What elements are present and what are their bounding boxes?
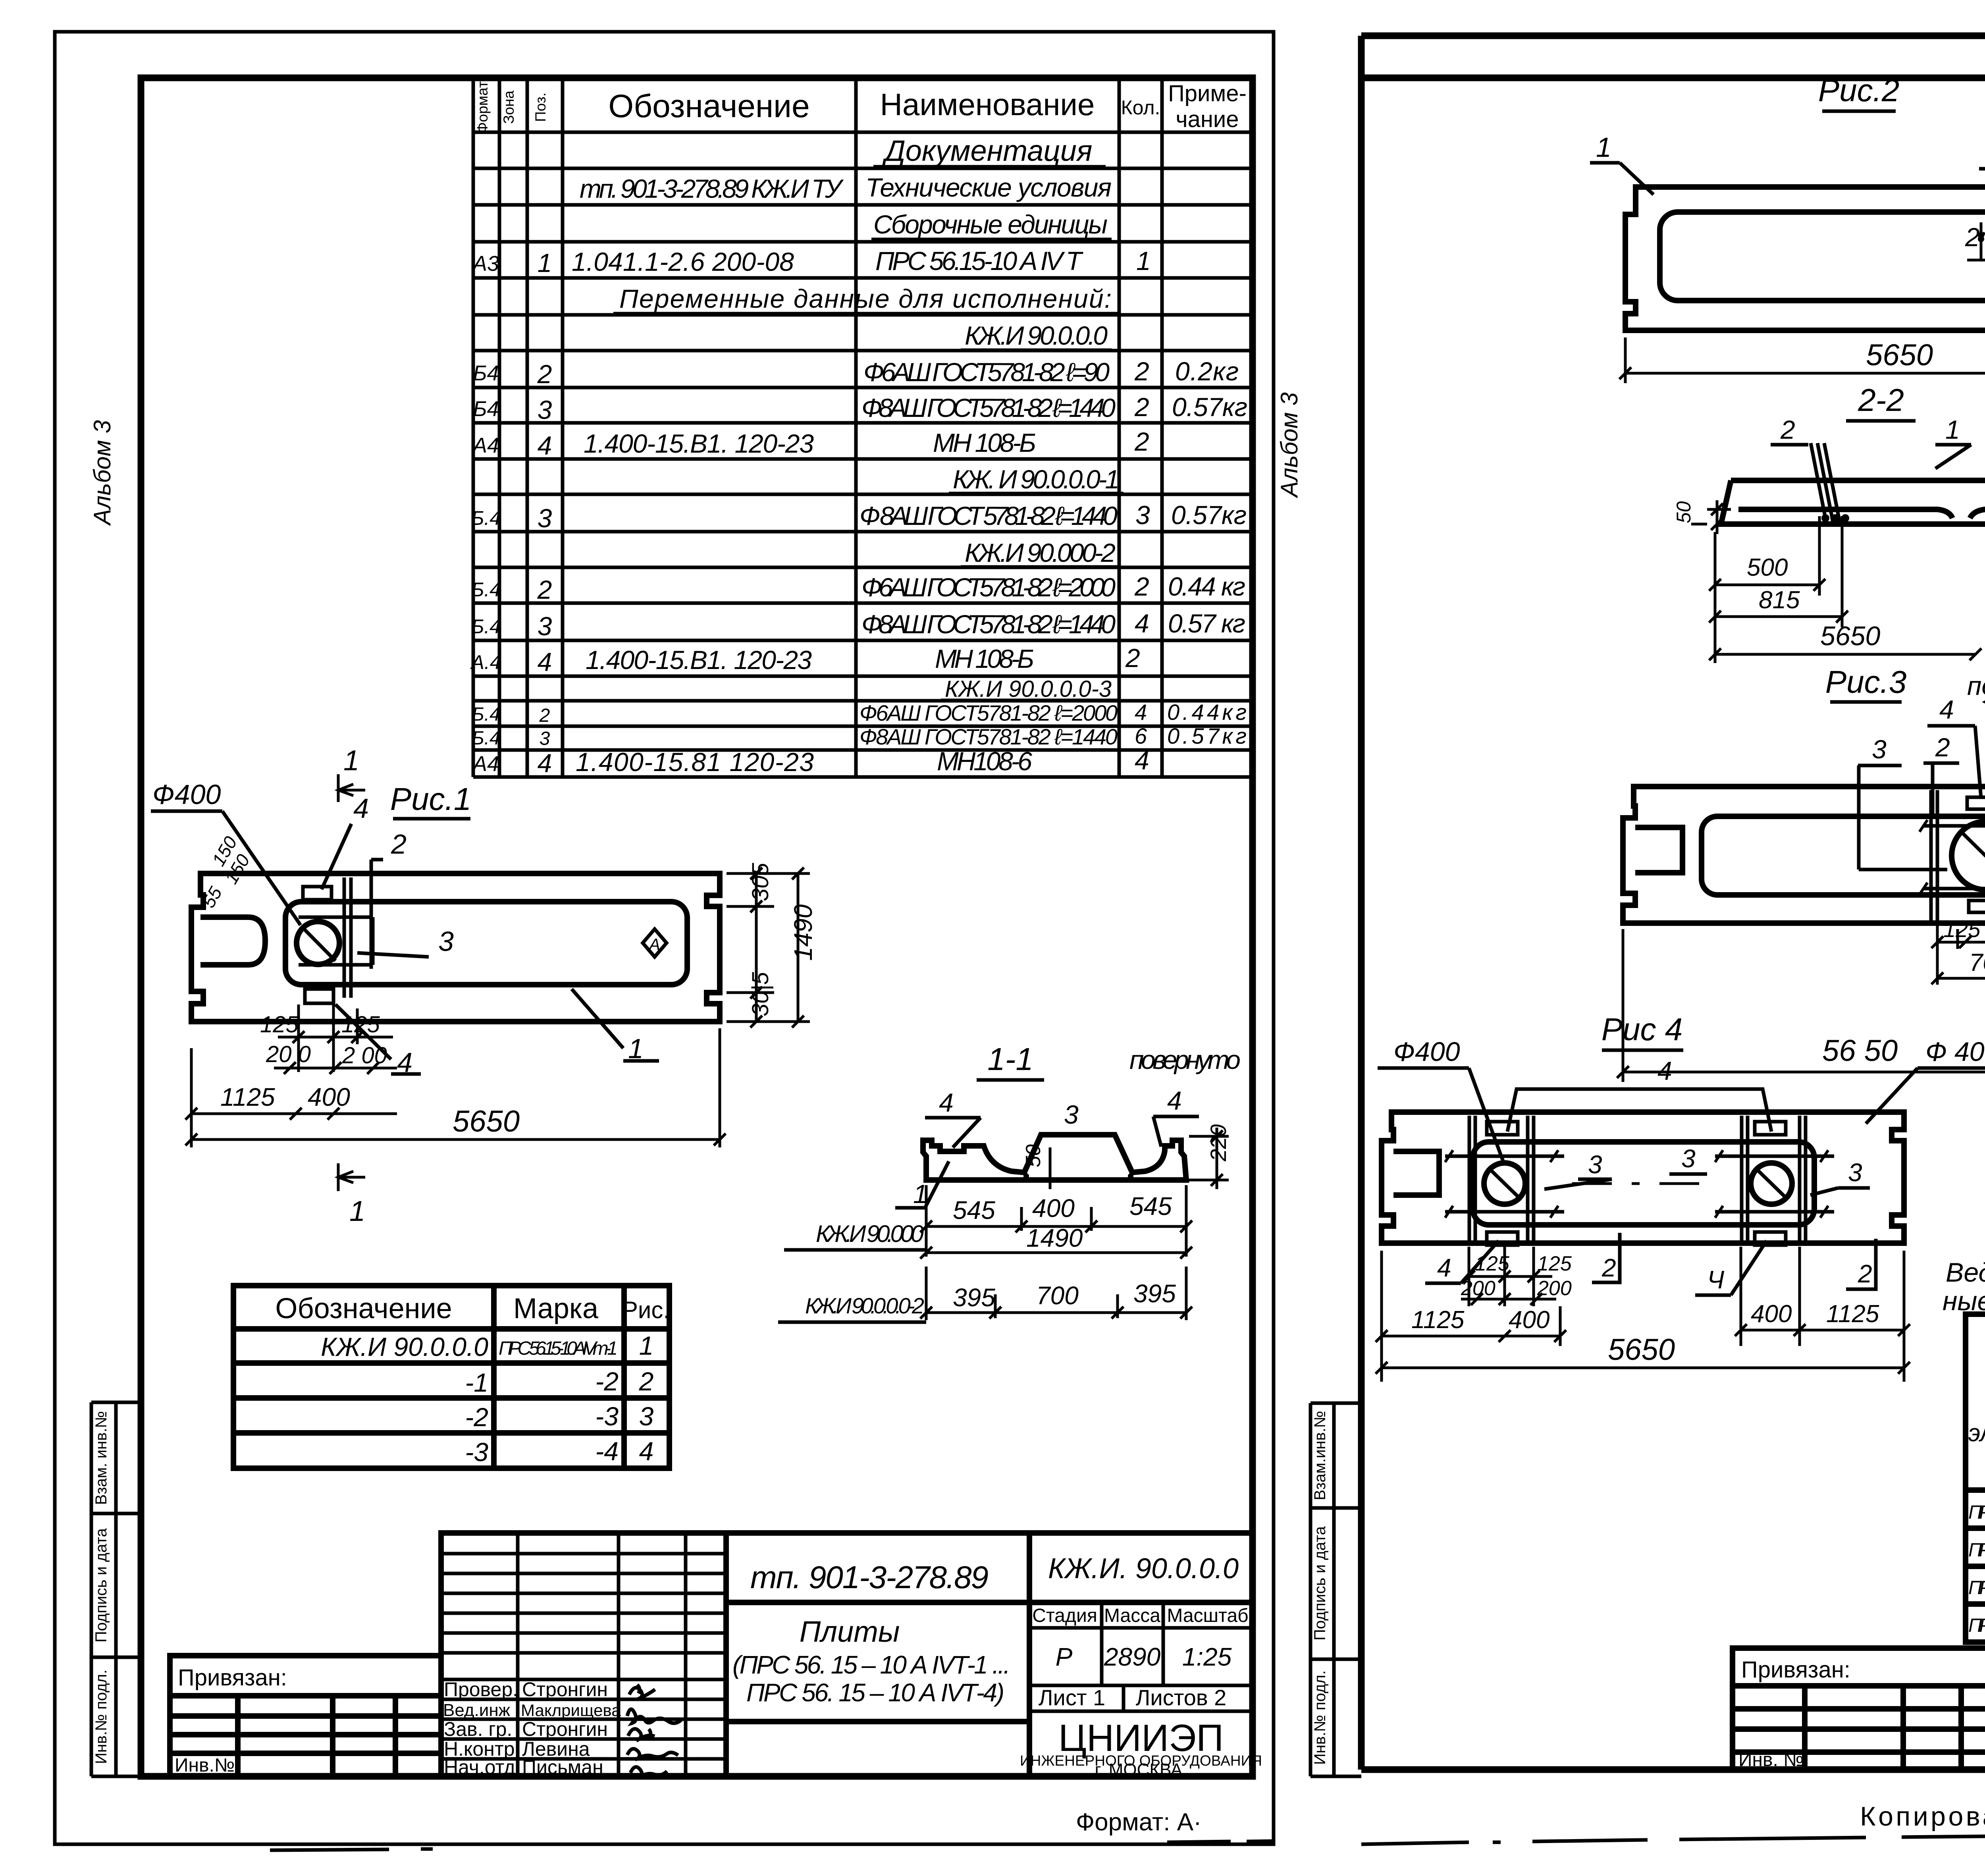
fig.1 collar lines around hole <box>299 917 373 965</box>
section 1-1 profile <box>923 1135 1186 1180</box>
svg-text:Копировал: Алещикова: Копировал: Алещикова <box>1860 1801 1985 1832</box>
svg-text:Рис 4: Рис 4 <box>1601 1012 1683 1047</box>
svg-text:Лист 1: Лист 1 <box>1039 1685 1105 1710</box>
svg-text:Привязан:: Привязан: <box>1741 1657 1850 1683</box>
svg-text:2: 2 <box>639 1367 654 1396</box>
svg-text:395: 395 <box>1133 1279 1176 1308</box>
svg-text:МН108-6: МН108-6 <box>937 746 1032 776</box>
svg-text:5650: 5650 <box>1608 1333 1675 1367</box>
fig.4 bars verticals left group <box>1469 1116 1534 1241</box>
svg-text:Переменные данные для исполнен: Переменные данные для исполнений: <box>619 284 1112 313</box>
fig.3 hole f700 <box>1952 821 1985 890</box>
svg-text:4: 4 <box>1135 746 1149 775</box>
svg-text:2: 2 <box>1134 392 1149 422</box>
fig.3 plate top <box>1967 797 1985 809</box>
svg-text:Зав. гр.: Зав. гр. <box>444 1718 512 1740</box>
svg-text:2 00: 2 00 <box>342 1043 387 1068</box>
section 1-1 dim row A 545 400 545 <box>920 1185 1192 1257</box>
fig.1 embedded plate bottom <box>305 989 333 1003</box>
svg-text:2: 2 <box>537 359 552 389</box>
svg-text:4: 4 <box>538 748 552 778</box>
svg-text:г. МОСКВА.: г. МОСКВА. <box>1095 1760 1187 1780</box>
svg-text:Марка: Марка <box>513 1293 599 1325</box>
svg-text:Подпись и дата: Подпись и дата <box>93 1528 110 1642</box>
svg-text:Кол.: Кол. <box>1121 96 1160 119</box>
svg-text:220: 220 <box>1206 1124 1231 1162</box>
fig.1 dim 5650 <box>185 1028 726 1147</box>
svg-text:1490: 1490 <box>789 904 817 961</box>
fig.4 inner opening <box>1473 1142 1814 1225</box>
svg-text:700: 700 <box>1969 949 1985 976</box>
svg-text:Поз.: Поз. <box>532 93 549 122</box>
svg-text:400: 400 <box>1509 1306 1549 1334</box>
svg-text:2890: 2890 <box>1104 1643 1161 1671</box>
svg-text:Рис.: Рис. <box>622 1297 670 1323</box>
fig.1 hole d400 <box>297 922 339 964</box>
svg-text:-2: -2 <box>595 1367 619 1396</box>
svg-text:2: 2 <box>1935 733 1950 762</box>
fig.1 embedded plate top <box>303 887 331 900</box>
svg-text:Ф8АШ ГОСТ5781-82 ℓ=1440: Ф8АШ ГОСТ5781-82 ℓ=1440 <box>860 724 1118 749</box>
fig.1 quality diamond mark <box>643 929 667 957</box>
title block stadia massa masshtab <box>1029 1602 1253 1711</box>
svg-text:Наименование: Наименование <box>880 87 1095 122</box>
title block left page frame <box>441 1533 1253 1777</box>
svg-text:2: 2 <box>1125 643 1140 673</box>
fig.1 right dims 305 1490 <box>727 868 810 1028</box>
svg-text:Ф8АШ ГОСТ5781-82 ℓ=1440: Ф8АШ ГОСТ5781-82 ℓ=1440 <box>861 609 1116 639</box>
fig.1 left channel groove <box>200 917 265 965</box>
right page margin stamp column <box>1310 1403 1361 1776</box>
svg-text:125: 125 <box>1537 1252 1572 1275</box>
svg-text:2: 2 <box>1134 427 1149 456</box>
svg-text:ПРС 56.15-10АIVт-1: ПРС 56.15-10АIVт-1 <box>499 1338 618 1359</box>
svg-text:0.57кг: 0.57кг <box>1172 392 1247 422</box>
fig.4 dim 5650 <box>1376 1362 1910 1374</box>
svg-text:1490: 1490 <box>1026 1224 1083 1252</box>
section 2-2 profile <box>1721 480 1985 524</box>
svg-text:Стронгин: Стронгин <box>522 1678 608 1701</box>
svg-text:Привязан:: Привязан: <box>178 1665 287 1691</box>
svg-text:-3: -3 <box>595 1402 619 1431</box>
svg-text:ПРС56.15-10АIVт-3: ПРС56.15-10АIVт-3 <box>1968 1577 1985 1598</box>
privyazan box left <box>170 1656 441 1777</box>
title block signature rows <box>443 1678 621 1778</box>
svg-text:Рис.1: Рис.1 <box>390 781 472 817</box>
svg-text:2: 2 <box>1134 572 1149 601</box>
svg-text:Ф8АШ ГОСТ5781-82 ℓ=1440: Ф8АШ ГОСТ5781-82 ℓ=1440 <box>861 393 1116 422</box>
left page margin stamp column <box>91 1402 141 1776</box>
svg-text:395: 395 <box>953 1283 995 1312</box>
svg-text:1.041.1-2.6 200-08: 1.041.1-2.6 200-08 <box>572 247 794 276</box>
svg-text:1:25: 1:25 <box>1182 1643 1232 1671</box>
left page outer thin border <box>55 32 1274 1844</box>
fig.4 centerline dash <box>1572 1182 1699 1185</box>
fig.4 bars verticals right group <box>1742 1116 1806 1241</box>
svg-text:2-2: 2-2 <box>1858 382 1904 418</box>
vedomost table grid <box>1966 1314 1985 1642</box>
vedomost data rows <box>1968 1496 1985 1637</box>
svg-text:1: 1 <box>1596 132 1611 163</box>
svg-text:500: 500 <box>1747 554 1788 581</box>
svg-text:Р: Р <box>1056 1643 1073 1671</box>
svg-text:Технические условия: Технические условия <box>865 173 1112 202</box>
svg-text:-1: -1 <box>465 1368 488 1397</box>
left page inner thick frame <box>141 78 1253 1776</box>
svg-text:0.44 кг: 0.44 кг <box>1168 572 1245 601</box>
svg-text:Ф6АШ ГОСТ5781-82 ℓ=90: Ф6АШ ГОСТ5781-82 ℓ=90 <box>863 357 1110 387</box>
svg-text:4: 4 <box>1135 700 1147 725</box>
svg-text:2: 2 <box>1965 222 1980 252</box>
svg-text:Инв.№ подл.: Инв.№ подл. <box>93 1670 110 1764</box>
svg-text:Б.4: Б.4 <box>472 704 500 725</box>
title block left columns <box>441 1533 726 1777</box>
svg-text:-3: -3 <box>465 1437 488 1467</box>
svg-text:МН 108-Б: МН 108-Б <box>935 644 1034 673</box>
svg-text:1.400-15.В1. 120-23: 1.400-15.В1. 120-23 <box>584 429 814 458</box>
fig.1 dim 125 125 row <box>278 1005 393 1072</box>
svg-text:(ПРС 56. 15 – 10 А IVТ-1 ...: (ПРС 56. 15 – 10 А IVТ-1 ... <box>732 1650 1010 1679</box>
svg-text:125: 125 <box>1475 1252 1510 1275</box>
fig.3 plate bottom <box>1969 900 1985 912</box>
svg-text:тп. 901-3-278.89 КЖ.И ТУ: тп. 901-3-278.89 КЖ.И ТУ <box>580 174 844 203</box>
svg-text:4: 4 <box>1939 695 1954 724</box>
fig.4 plates right <box>1755 1122 1786 1135</box>
svg-text:3: 3 <box>1872 735 1887 764</box>
svg-text:3: 3 <box>538 395 552 424</box>
svg-text:0.2кг: 0.2кг <box>1175 357 1239 386</box>
svg-text:30|5: 30|5 <box>748 972 773 1016</box>
fig.4 dims 400 1125 right <box>1735 1247 1910 1382</box>
fig.1 bars item2 vertical lines <box>344 877 351 998</box>
svg-text:2: 2 <box>1134 357 1149 386</box>
svg-text:А.4: А.4 <box>470 651 501 673</box>
svg-text:5650: 5650 <box>453 1105 520 1138</box>
svg-text:56 50: 56 50 <box>1822 1034 1898 1068</box>
svg-text:Инв. №: Инв. № <box>1738 1749 1804 1770</box>
svg-text:125: 125 <box>341 1012 380 1037</box>
svg-text:5650: 5650 <box>1866 338 1933 372</box>
svg-text:1125: 1125 <box>220 1083 275 1111</box>
svg-text:3: 3 <box>538 503 552 533</box>
svg-text:Стронгин: Стронгин <box>522 1718 608 1740</box>
svg-text:Рис.2: Рис.2 <box>1818 73 1900 108</box>
svg-text:Б.4: Б.4 <box>471 578 501 601</box>
svg-text:3: 3 <box>639 1402 654 1431</box>
svg-text:Вед.инж: Вед.инж <box>443 1701 511 1720</box>
svg-text:4: 4 <box>1437 1253 1451 1282</box>
svg-text:КЖ.И 90.0.0.0: КЖ.И 90.0.0.0 <box>321 1332 488 1361</box>
svg-text:3: 3 <box>1681 1144 1696 1173</box>
svg-text:Ч: Ч <box>1707 1265 1725 1294</box>
svg-text:1: 1 <box>349 1195 365 1227</box>
fig.4 dims 1125 400 left <box>1376 1251 1566 1382</box>
fig.3 dims bottom 125 125 700 1475 <box>1931 901 1985 985</box>
svg-text:4: 4 <box>1135 609 1149 638</box>
svg-text:1: 1 <box>1945 415 1960 444</box>
svg-text:Б4: Б4 <box>473 397 499 421</box>
svg-text:Плиты: Плиты <box>800 1615 900 1648</box>
svg-text:КЖ.И 90.0.0.0: КЖ.И 90.0.0.0 <box>965 321 1108 350</box>
svg-text:3: 3 <box>1064 1100 1079 1129</box>
fig.4 hole left f400 <box>1484 1163 1525 1204</box>
svg-text:Провер.: Провер. <box>444 1678 518 1701</box>
svg-text:4: 4 <box>1167 1086 1182 1115</box>
svg-text:4: 4 <box>1657 1056 1672 1085</box>
svg-text:3: 3 <box>1588 1150 1602 1179</box>
svg-text:1125: 1125 <box>1411 1306 1465 1334</box>
svg-text:Зона: Зона <box>501 91 517 124</box>
svg-text:4: 4 <box>939 1088 954 1117</box>
svg-text:4: 4 <box>538 431 552 460</box>
fig.4 bars item3 horizontals left <box>1445 1150 1564 1218</box>
section 1-1 base strip <box>926 1177 1186 1183</box>
svg-text:Ф400: Ф400 <box>1393 1037 1460 1067</box>
svg-text:3: 3 <box>1848 1158 1862 1187</box>
svg-text:по 1: по 1 <box>1967 671 1985 700</box>
svg-text:Масштаб: Масштаб <box>1167 1605 1248 1626</box>
svg-text:50: 50 <box>1673 501 1695 523</box>
svg-text:чание: чание <box>1176 106 1239 132</box>
svg-text:Взам.инв.№: Взам.инв.№ <box>1311 1411 1329 1500</box>
svg-text:Инв.№ подл.: Инв.№ подл. <box>1311 1670 1329 1765</box>
fig.4 hole right f400 <box>1751 1163 1792 1204</box>
svg-text:ПРС 56.15-10 А IV Т: ПРС 56.15-10 А IV Т <box>875 246 1084 276</box>
svg-text:Документация: Документация <box>882 134 1093 167</box>
svg-text:Нач.отд: Нач.отд <box>444 1756 515 1778</box>
specification table body texts <box>470 134 1247 778</box>
fig.4 slab outline <box>1382 1112 1904 1243</box>
right page thick frame <box>1361 36 1985 1842</box>
svg-text:А4: А4 <box>472 434 499 457</box>
svg-text:Стадия: Стадия <box>1032 1605 1097 1626</box>
svg-text:Инв.№: Инв.№ <box>175 1755 235 1776</box>
fig.4 left channel groove <box>1393 1151 1439 1195</box>
svg-text:1: 1 <box>538 248 552 278</box>
fig.4 plates left <box>1487 1122 1518 1135</box>
svg-text:Письман: Письман <box>522 1756 603 1778</box>
svg-text:Сборочные единицы: Сборочные единицы <box>873 210 1108 239</box>
svg-text:Взам. инв.№: Взам. инв.№ <box>93 1411 110 1505</box>
svg-text:3: 3 <box>1135 500 1150 530</box>
svg-text:4: 4 <box>538 647 552 677</box>
svg-text:3: 3 <box>540 728 550 749</box>
svg-text:элемента: элемента <box>1968 1419 1985 1447</box>
svg-text:1.400-15.81 120-23: 1.400-15.81 120-23 <box>576 747 814 777</box>
svg-text:А: А <box>648 935 660 954</box>
specification table grid <box>473 79 1253 777</box>
fig.4 bars item3 horizontals right <box>1715 1150 1834 1218</box>
fig.1 dim 200 200 row <box>274 1062 397 1074</box>
svg-text:20 0: 20 0 <box>266 1041 311 1067</box>
footer dashed line <box>1361 1830 1985 1844</box>
svg-text:Ф 400: Ф 400 <box>1925 1037 1985 1067</box>
svg-text:А4: А4 <box>472 752 499 776</box>
section 1-1 weld dots <box>1023 1173 1029 1179</box>
svg-text:0.57кг: 0.57кг <box>1171 500 1247 530</box>
svg-text:2: 2 <box>539 705 550 726</box>
svg-text:815: 815 <box>1759 586 1800 614</box>
section 1-1 dim row B 395 700 395 <box>920 1267 1192 1320</box>
svg-text:ПРС 56.15-10АIVт.1: ПРС 56.15-10АIVт.1 <box>1968 1502 1985 1523</box>
svg-text:2: 2 <box>537 575 552 604</box>
svg-text:1-1: 1-1 <box>987 1041 1033 1077</box>
fig.3 bars item2 verticals <box>1931 790 1985 921</box>
svg-text:Ведомость расхода стали на доп: Ведомость расхода стали на дополнитель- <box>1946 1257 1985 1288</box>
svg-text:КЖ. И 90.0.0.0-1: КЖ. И 90.0.0.0-1 <box>953 465 1120 494</box>
fig.3 left channel groove <box>1635 827 1682 873</box>
svg-text:тп. 901-3-278.89: тп. 901-3-278.89 <box>750 1560 989 1595</box>
section 2-2 dim 50 <box>1691 500 1731 534</box>
svg-text:ПРС56. 15-10АIVт-2: ПРС56. 15-10АIVт-2 <box>1968 1540 1985 1561</box>
svg-text:200: 200 <box>1537 1277 1572 1300</box>
fig.1 inner opening rounded rect <box>285 902 687 985</box>
svg-text:Формат: А·: Формат: А· <box>1076 1809 1202 1836</box>
svg-text:1.400-15.В1. 120-23: 1.400-15.В1. 120-23 <box>586 645 812 675</box>
svg-text:Рис.3: Рис.3 <box>1825 664 1907 700</box>
svg-text:700: 700 <box>1036 1281 1079 1310</box>
svg-text:2: 2 <box>1780 415 1795 444</box>
section 2-2 bars slanted <box>1811 443 1840 524</box>
svg-text:200: 200 <box>1461 1277 1495 1300</box>
designation table texts <box>275 1293 670 1467</box>
svg-text:125: 125 <box>260 1012 299 1037</box>
designation table grid <box>233 1286 669 1468</box>
svg-text:Приме-: Приме- <box>1168 81 1247 106</box>
fig.1 slab outline <box>191 873 720 1022</box>
svg-text:-2: -2 <box>465 1402 488 1432</box>
svg-text:Б.4: Б.4 <box>471 507 501 529</box>
svg-text:400: 400 <box>1751 1300 1792 1328</box>
left page bottom dashed segments <box>270 1841 1272 1850</box>
fig.3 inner opening <box>1702 816 1985 895</box>
svg-text:КЖ.И 90.0.0.0-3: КЖ.И 90.0.0.0-3 <box>945 676 1112 702</box>
svg-text:400: 400 <box>308 1083 350 1111</box>
svg-text:2: 2 <box>1601 1253 1616 1282</box>
svg-text:Б4: Б4 <box>473 361 499 385</box>
svg-text:1: 1 <box>639 1331 654 1360</box>
section 2-2 dims 500 815 5650 <box>1709 516 1981 663</box>
svg-text:Обозначение: Обозначение <box>608 88 809 124</box>
fig.2 slab outline <box>1625 187 1985 330</box>
svg-text:Ф6АШ ГОСТ5781-82 ℓ=2000: Ф6АШ ГОСТ5781-82 ℓ=2000 <box>860 700 1118 725</box>
privyazan box right <box>1733 1648 1985 1770</box>
section 1-1 dim 1490 <box>920 1247 1192 1259</box>
fig.1 section mark 1 bottom <box>338 1163 365 1191</box>
svg-text:повернуто: повернуто <box>1129 1045 1241 1074</box>
svg-text:МН 108-Б: МН 108-Б <box>933 428 1036 457</box>
title block signatures squiggles <box>627 1685 681 1778</box>
svg-text:125: 125 <box>1943 917 1981 942</box>
svg-text:Б.4: Б.4 <box>472 728 500 749</box>
svg-text:3: 3 <box>538 611 552 641</box>
svg-text:Альбом 3: Альбом 3 <box>1276 392 1303 498</box>
svg-text:6: 6 <box>1135 723 1147 748</box>
fig.3 bars item3 horizontals <box>1919 820 1985 895</box>
svg-text:Б.4: Б.4 <box>471 615 501 638</box>
svg-text:Подпись и дата: Подпись и дата <box>1311 1526 1329 1640</box>
svg-text:545: 545 <box>1129 1192 1172 1220</box>
specification table header texts <box>474 81 1247 133</box>
svg-text:400: 400 <box>1032 1194 1075 1222</box>
svg-text:-4: -4 <box>595 1436 619 1466</box>
svg-text:Формат: Формат <box>474 81 491 133</box>
svg-text:305: 305 <box>748 862 773 901</box>
fig.2 dim 5650 <box>1619 298 1985 383</box>
fig.2 inner opening <box>1660 212 1985 301</box>
svg-text:5650: 5650 <box>1820 621 1880 651</box>
svg-text:Ф400: Ф400 <box>152 779 221 810</box>
svg-text:1: 1 <box>343 745 359 777</box>
svg-text:КЖ.И 90.000-2: КЖ.И 90.000-2 <box>965 538 1116 567</box>
svg-text:545: 545 <box>953 1196 995 1224</box>
svg-text:2: 2 <box>391 829 407 860</box>
svg-text:4: 4 <box>353 793 369 824</box>
svg-text:Альбом 3: Альбом 3 <box>89 420 116 526</box>
svg-text:0.57 кг: 0.57 кг <box>1168 609 1245 638</box>
svg-text:ПРС 56. 15 – 10 А IVТ-4): ПРС 56. 15 – 10 А IVТ-4) <box>746 1678 1004 1707</box>
svg-text:ПРС 56.15 -10АIVт-4: ПРС 56.15 -10АIVт-4 <box>1968 1615 1985 1636</box>
fig.3 dim 5650 <box>1617 929 1985 1082</box>
right page top band <box>1361 36 1985 78</box>
fig.3 slab outline <box>1623 787 1985 923</box>
svg-text:Масса: Масса <box>1104 1605 1160 1626</box>
svg-text:Ф 8АШ ГОСТ 5781-82 ℓ=1440: Ф 8АШ ГОСТ 5781-82 ℓ=1440 <box>860 501 1118 530</box>
svg-text:4: 4 <box>639 1436 654 1466</box>
svg-text:50: 50 <box>1022 1144 1045 1167</box>
svg-text:А3: А3 <box>472 252 499 276</box>
fig.4 dims 125 125 200 200 <box>1461 1247 1556 1306</box>
svg-text:КЖ.И. 90.0.0.0: КЖ.И. 90.0.0.0 <box>1048 1553 1239 1585</box>
svg-text:Обозначение: Обозначение <box>275 1293 452 1325</box>
svg-text:КЖ.И 90.000: КЖ.И 90.000 <box>816 1220 924 1247</box>
svg-text:2: 2 <box>1858 1259 1872 1288</box>
fig.1 dim 1125 400 row <box>185 1072 397 1124</box>
svg-text:Ф6АШ ГОСТ5781-82 ℓ=2000: Ф6АШ ГОСТ5781-82 ℓ=2000 <box>861 573 1116 602</box>
svg-text:Листов 2: Листов 2 <box>1136 1685 1227 1710</box>
svg-text:3: 3 <box>438 926 454 957</box>
svg-text:1: 1 <box>1136 246 1151 276</box>
svg-text:1125: 1125 <box>1826 1300 1879 1328</box>
svg-text:КЖ.И 90.0.0.0-2: КЖ.И 90.0.0.0-2 <box>805 1293 924 1318</box>
section 1-1 dim 220 <box>1189 1128 1229 1189</box>
svg-text:Маклрищева: Маклрищева <box>521 1701 621 1720</box>
